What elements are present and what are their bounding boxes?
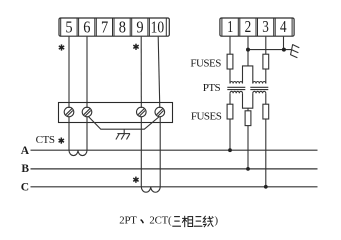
PT1 secondary coil [230, 91, 243, 93]
wire F3 to phase A [229, 119, 231, 150]
meter terminal box [59, 103, 173, 123]
junction node phase A [228, 148, 232, 152]
fuse F3 [227, 104, 233, 119]
wire F2 to PT2 primary [265, 69, 267, 84]
phase line C [31, 186, 318, 188]
terminal strip TB-right cell dividers [222, 18, 292, 36]
wire F1 to PT1 primary [229, 69, 231, 84]
caption 2PT 2CT [119, 214, 218, 226]
svg-text:FUSES: FUSES [191, 110, 222, 122]
ground bus from terminals T2 and T4 [89, 117, 159, 130]
junction node terminal 4 ground [282, 48, 286, 52]
PT1 primary coil [230, 81, 243, 83]
polarity asterisk CT-C [133, 177, 138, 183]
screw terminal T2 [82, 107, 92, 117]
wire PT1 secondary to F3 [229, 93, 231, 104]
svg-text:2PT: 2PT [119, 214, 137, 226]
screw terminal T1 [64, 107, 74, 117]
svg-text:10: 10 [151, 18, 165, 37]
fuse F1 [227, 54, 233, 69]
wire PT2 secondary to F5 [265, 93, 267, 104]
PT2 primary coil [253, 81, 266, 83]
wire F5 to phase C [265, 119, 267, 187]
secondary join to F4 [243, 93, 253, 108]
svg-text:B: B [21, 163, 29, 175]
wire terminal 5 to meter terminal 1 [68, 37, 70, 108]
caption glyph san2 (three) [194, 217, 203, 227]
screw terminal T3 [137, 107, 147, 117]
CT-C secondary lead 1 [140, 117, 142, 187]
PT2 core [250, 86, 268, 88]
fuse F4 [245, 111, 251, 126]
svg-text:1: 1 [227, 17, 233, 36]
wire F4 to phase B [247, 126, 249, 169]
junction node terminal 2 ground [246, 48, 250, 52]
PT1 core [227, 86, 245, 88]
phase line A [31, 149, 318, 151]
caption glyph xiang (phase) [182, 216, 193, 227]
terminal numbers 5 6 7 8 9 10 [65, 18, 164, 37]
svg-text:): ) [215, 214, 219, 226]
caption ideographic comma [141, 220, 144, 224]
svg-text:PTS: PTS [203, 82, 221, 94]
primary split from terminal 2 wire [243, 66, 253, 84]
CT-A secondary lead 1 [68, 117, 70, 150]
junction node phase B [246, 167, 250, 171]
CT-C secondary lead 2 [159, 117, 161, 187]
caption glyph xian (wire) [203, 216, 213, 227]
junction node phase C [264, 185, 268, 189]
svg-text:2CT(: 2CT( [149, 214, 172, 226]
PT2 secondary coil [253, 91, 266, 93]
wire terminal 9 to meter terminal 3 [140, 37, 142, 108]
earth symbol top right [291, 44, 300, 58]
CT-A coil on phase A [69, 150, 87, 155]
ground symbol under meter box [116, 129, 130, 139]
svg-text:9: 9 [136, 18, 143, 37]
ground bus wire [248, 49, 291, 51]
wire terminal 10 to meter terminal 4 [158, 37, 160, 108]
svg-text:3: 3 [262, 17, 269, 36]
svg-text:8: 8 [119, 18, 126, 37]
caption glyph san1 (three) [172, 217, 181, 227]
polarity asterisk at terminal 9 [133, 44, 138, 50]
svg-text:5: 5 [65, 18, 72, 37]
svg-text:6: 6 [83, 18, 90, 37]
wire phase A from terminal 1 [229, 37, 231, 55]
CT-A secondary lead 2 [86, 117, 88, 150]
fuse F5 [263, 104, 269, 119]
wire ground from terminal 4 [283, 37, 285, 50]
svg-text:4: 4 [280, 17, 287, 36]
screw terminal T4 [155, 107, 165, 117]
svg-text:A: A [21, 145, 30, 157]
terminal strip TB-left outer box [59, 18, 169, 36]
svg-text:FUSES: FUSES [190, 58, 221, 70]
svg-text:CTS: CTS [36, 134, 55, 146]
wire phase C from terminal 3 [265, 37, 267, 55]
polarity asterisk CT-A [59, 138, 64, 144]
phase line B [31, 168, 318, 170]
terminal numbers 1 2 3 4 [227, 17, 287, 36]
polarity asterisk at terminal 5 [59, 44, 64, 50]
CT-C coil on phase C [141, 187, 160, 192]
terminal strip TB-right outer box [220, 18, 294, 36]
svg-text:C: C [21, 182, 29, 194]
wire neutral from terminal 2 [247, 37, 249, 66]
svg-text:7: 7 [101, 18, 109, 37]
terminal strip TB-left cell dividers [61, 18, 167, 36]
fuse F2 [263, 54, 269, 69]
wire terminal 6 to meter terminal 2 [86, 37, 88, 108]
svg-text:2: 2 [245, 17, 252, 36]
